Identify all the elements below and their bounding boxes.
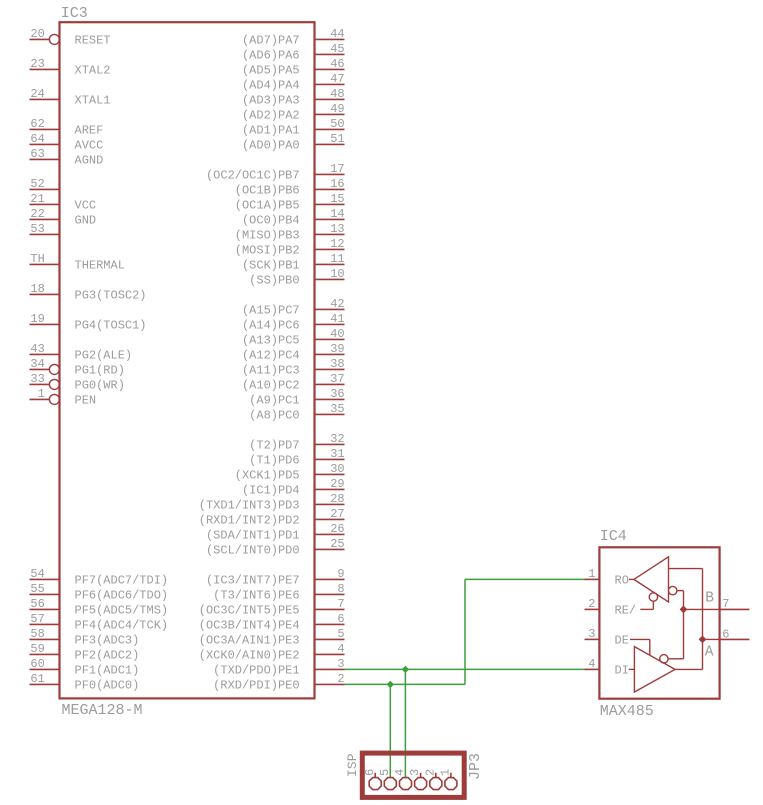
svg-text:PF6(ADC6/TDO): PF6(ADC6/TDO) bbox=[75, 589, 169, 603]
svg-text:(OC3A/AIN1)PE3: (OC3A/AIN1)PE3 bbox=[199, 634, 300, 648]
svg-text:58: 58 bbox=[30, 627, 44, 641]
svg-text:21: 21 bbox=[30, 192, 44, 206]
svg-text:12: 12 bbox=[330, 237, 344, 251]
svg-text:(T1)PD6: (T1)PD6 bbox=[249, 454, 299, 468]
svg-text:33: 33 bbox=[30, 372, 44, 386]
IC3 pin 34 PG1(RD) bbox=[30, 357, 125, 378]
svg-text:41: 41 bbox=[330, 312, 344, 326]
IC3 pin 48 (AD3)PA3 bbox=[242, 87, 345, 108]
IC3 pin 9 (IC3/INT7)PE7 bbox=[206, 567, 345, 588]
svg-text:2: 2 bbox=[337, 672, 344, 686]
svg-text:42: 42 bbox=[330, 297, 344, 311]
svg-text:(T3/INT6)PE6: (T3/INT6)PE6 bbox=[213, 589, 299, 603]
svg-text:(A15)PC7: (A15)PC7 bbox=[242, 304, 300, 318]
wire RXD vertical riser bbox=[464, 579, 466, 684]
svg-text:(AD4)PA4: (AD4)PA4 bbox=[242, 79, 300, 93]
svg-text:24: 24 bbox=[30, 87, 44, 101]
IC3 designator label bbox=[61, 5, 88, 22]
svg-text:15: 15 bbox=[330, 192, 344, 206]
svg-text:RESET: RESET bbox=[75, 34, 111, 48]
svg-text:17: 17 bbox=[330, 162, 344, 176]
svg-text:(AD5)PA5: (AD5)PA5 bbox=[242, 64, 300, 78]
svg-text:38: 38 bbox=[330, 357, 344, 371]
IC3 pin 32 (T2)PD7 bbox=[249, 432, 344, 453]
IC3 pin 6 (OC3B/INT4)PE4 bbox=[199, 612, 345, 633]
JP3 pin 6 pad bbox=[363, 769, 381, 790]
svg-text:60: 60 bbox=[30, 657, 44, 671]
IC3 pin 41 (A14)PC6 bbox=[242, 312, 345, 333]
IC3 pin 11 (SCK)PB1 bbox=[242, 252, 345, 273]
IC3 pin 20 RESET bbox=[30, 27, 111, 48]
wire TXD down to ISP pin 4 bbox=[404, 669, 406, 777]
svg-text:(OC1B)PB6: (OC1B)PB6 bbox=[235, 184, 300, 198]
svg-text:59: 59 bbox=[30, 642, 44, 656]
svg-text:6: 6 bbox=[722, 628, 729, 642]
svg-text:63: 63 bbox=[30, 147, 44, 161]
svg-text:9: 9 bbox=[337, 567, 344, 581]
IC3 pin 3 (TXD/PDO)PE1 bbox=[213, 657, 344, 678]
svg-text:(TXD1/INT3)PD3: (TXD1/INT3)PD3 bbox=[199, 499, 300, 513]
IC4 driver output line bbox=[675, 668, 702, 670]
svg-text:64: 64 bbox=[30, 132, 44, 146]
svg-text:2: 2 bbox=[588, 597, 595, 611]
svg-text:(A11)PC3: (A11)PC3 bbox=[242, 364, 300, 378]
IC3 pin 28 (TXD1/INT3)PD3 bbox=[199, 492, 345, 513]
svg-text:3: 3 bbox=[408, 769, 422, 776]
svg-text:27: 27 bbox=[330, 507, 344, 521]
IC4 net label A bbox=[705, 644, 714, 660]
svg-text:PF3(ADC3): PF3(ADC3) bbox=[75, 634, 140, 648]
IC3 pin 13 (MISO)PB3 bbox=[235, 222, 345, 243]
IC3 pin 12 (MOSI)PB2 bbox=[235, 237, 345, 258]
svg-text:(A10)PC2: (A10)PC2 bbox=[242, 379, 300, 393]
svg-text:4: 4 bbox=[393, 769, 407, 776]
svg-text:3: 3 bbox=[337, 657, 344, 671]
IC3 pin 2 (RXD/PDI)PE0 bbox=[213, 672, 344, 693]
IC3 pin 39 (A12)PC4 bbox=[242, 342, 345, 363]
IC3 pin 42 (A15)PC7 bbox=[242, 297, 345, 318]
svg-text:B: B bbox=[705, 591, 714, 607]
IC4 driver bubble link line bbox=[668, 658, 683, 660]
svg-text:(A12)PC4: (A12)PC4 bbox=[242, 349, 300, 363]
IC3 pin 36 (A9)PC1 bbox=[249, 387, 344, 408]
svg-text:DE: DE bbox=[615, 634, 629, 648]
IC3 pin 44 (AD7)PA7 bbox=[242, 27, 345, 48]
svg-text:(MISO)PB3: (MISO)PB3 bbox=[235, 229, 300, 243]
IC4 junction on B line bbox=[680, 606, 688, 614]
svg-text:PG0(WR): PG0(WR) bbox=[75, 379, 125, 393]
svg-text:(SCK)PB1: (SCK)PB1 bbox=[242, 259, 300, 273]
IC3 pin 1 PEN bbox=[30, 387, 97, 408]
svg-text:(RXD1/INT2)PD2: (RXD1/INT2)PD2 bbox=[199, 514, 300, 528]
IC4 RE/ enable bubble bbox=[649, 593, 657, 601]
IC4 pin 3 DE bbox=[585, 627, 629, 648]
IC3 pin 35 (A8)PC0 bbox=[249, 402, 344, 423]
junction on RXD wire bbox=[387, 681, 394, 688]
svg-text:PG2(ALE): PG2(ALE) bbox=[75, 349, 133, 363]
svg-text:PF4(ADC4/TCK): PF4(ADC4/TCK) bbox=[75, 619, 169, 633]
svg-text:(OC3C/INT5)PE5: (OC3C/INT5)PE5 bbox=[199, 604, 300, 618]
wire PE1 TXD to IC4 DI bbox=[345, 668, 585, 670]
svg-text:1: 1 bbox=[38, 387, 45, 401]
svg-text:14: 14 bbox=[330, 207, 344, 221]
svg-text:(T2)PD7: (T2)PD7 bbox=[249, 439, 299, 453]
IC4 driver inverting output bubble bbox=[660, 655, 668, 663]
IC3 pin 63 AGND bbox=[30, 147, 104, 168]
IC3 pin 57 PF4(ADC4/TCK) bbox=[30, 612, 169, 633]
svg-text:32: 32 bbox=[330, 432, 344, 446]
IC3 pin 14 (OC0)PB4 bbox=[242, 207, 345, 228]
svg-text:(OC0)PB4: (OC0)PB4 bbox=[242, 214, 300, 228]
svg-text:PG4(TOSC1): PG4(TOSC1) bbox=[75, 319, 147, 333]
wire PE0 RXD horizontal bbox=[345, 683, 466, 685]
IC3 pin 4 (XCK0/AIN0)PE2 bbox=[199, 642, 345, 663]
svg-text:52: 52 bbox=[30, 177, 44, 191]
IC3 pin 45 (AD6)PA6 bbox=[242, 42, 345, 63]
IC3 pin 24 XTAL1 bbox=[30, 87, 111, 108]
svg-text:(AD1)PA1: (AD1)PA1 bbox=[242, 124, 300, 138]
IC3 pin 62 AREF bbox=[30, 117, 104, 138]
svg-text:53: 53 bbox=[30, 222, 44, 236]
svg-text:(AD7)PA7: (AD7)PA7 bbox=[242, 34, 300, 48]
svg-text:45: 45 bbox=[330, 42, 344, 56]
IC4 pin 2 RE/ bbox=[585, 597, 637, 618]
svg-text:RE/: RE/ bbox=[615, 604, 637, 618]
svg-text:(RXD/PDI)PE0: (RXD/PDI)PE0 bbox=[213, 679, 299, 693]
IC3 pin 37 (A10)PC2 bbox=[242, 372, 345, 393]
IC3 pin 51 (AD0)PA0 bbox=[242, 132, 345, 153]
junction on TXD wire bbox=[402, 666, 409, 673]
JP3 designator label bbox=[467, 753, 484, 780]
IC4 DE link line bbox=[630, 639, 650, 655]
IC3 pin 8 (T3/INT6)PE6 bbox=[213, 582, 344, 603]
svg-text:5: 5 bbox=[378, 769, 392, 776]
svg-text:(XCK1)PD5: (XCK1)PD5 bbox=[235, 469, 300, 483]
IC4 bubble link line bbox=[677, 590, 684, 592]
IC3 pin 22 GND bbox=[30, 207, 97, 228]
IC3 pin 25 (SCL/INT0)PD0 bbox=[206, 537, 345, 558]
IC3 pin 26 (SDA/INT1)PD1 bbox=[206, 522, 345, 543]
svg-text:(A9)PC1: (A9)PC1 bbox=[249, 394, 299, 408]
svg-text:6: 6 bbox=[363, 769, 377, 776]
svg-text:(OC2/OC1C)PB7: (OC2/OC1C)PB7 bbox=[206, 169, 300, 183]
IC4 B line to pin 7 bbox=[684, 608, 720, 610]
IC3 pin 60 PF1(ADC1) bbox=[30, 657, 140, 678]
svg-text:3: 3 bbox=[588, 627, 595, 641]
svg-text:(A8)PC0: (A8)PC0 bbox=[249, 409, 299, 423]
IC3 pin 53 bbox=[30, 222, 60, 236]
IC4 receiver output link to RO bbox=[629, 578, 634, 580]
svg-text:40: 40 bbox=[330, 327, 344, 341]
IC3 pin 43 PG2(ALE) bbox=[30, 342, 133, 363]
svg-text:THERMAL: THERMAL bbox=[75, 259, 125, 273]
IC3 pin 27 (RXD1/INT2)PD2 bbox=[199, 507, 345, 528]
IC4 pin 4 DI bbox=[585, 657, 629, 678]
IC3 pin 55 PF6(ADC6/TDO) bbox=[30, 582, 169, 603]
svg-text:(SDA/INT1)PD1: (SDA/INT1)PD1 bbox=[206, 529, 300, 543]
IC3 pin TH THERMAL bbox=[30, 252, 125, 273]
svg-text:AREF: AREF bbox=[75, 124, 104, 138]
IC4 A line to pin 6 bbox=[703, 638, 720, 640]
IC3 pin 5 (OC3A/AIN1)PE3 bbox=[199, 627, 345, 648]
svg-text:RO: RO bbox=[615, 574, 629, 588]
JP3 pin 2 pad bbox=[423, 769, 441, 790]
IC3 pin 30 (XCK1)PD5 bbox=[235, 462, 345, 483]
svg-text:PEN: PEN bbox=[75, 394, 97, 408]
IC3 pin 61 PF0(ADC0) bbox=[30, 672, 140, 693]
svg-text:A: A bbox=[705, 644, 714, 660]
svg-text:11: 11 bbox=[330, 252, 344, 266]
svg-text:(AD3)PA3: (AD3)PA3 bbox=[242, 94, 300, 108]
IC4 receiver input line from A bbox=[669, 568, 703, 570]
IC3 pin 19 PG4(TOSC1) bbox=[30, 312, 147, 333]
IC4 internal vertical A bus bbox=[702, 569, 704, 670]
svg-text:PF1(ADC1): PF1(ADC1) bbox=[75, 664, 140, 678]
svg-text:AVCC: AVCC bbox=[75, 139, 104, 153]
IC4 designator label bbox=[600, 528, 627, 545]
svg-text:30: 30 bbox=[330, 462, 344, 476]
svg-text:PF2(ADC2): PF2(ADC2) bbox=[75, 649, 140, 663]
IC4 receiver buffer triangle bbox=[634, 557, 669, 602]
IC3 pin 46 (AD5)PA5 bbox=[242, 57, 345, 78]
svg-text:AGND: AGND bbox=[75, 154, 104, 168]
svg-text:56: 56 bbox=[30, 597, 44, 611]
svg-text:44: 44 bbox=[330, 27, 344, 41]
svg-text:29: 29 bbox=[330, 477, 344, 491]
svg-text:48: 48 bbox=[330, 87, 344, 101]
IC4 DI link line bbox=[629, 668, 635, 670]
svg-text:ISP: ISP bbox=[345, 753, 360, 777]
IC4 receiver inverting input bubble bbox=[669, 586, 677, 594]
wire riser to IC4 RO bbox=[465, 578, 585, 580]
JP3 pin 4 pad bbox=[393, 769, 411, 790]
svg-text:22: 22 bbox=[30, 207, 44, 221]
svg-text:XTAL2: XTAL2 bbox=[75, 64, 111, 78]
IC3 MEGA128 body outline bbox=[60, 22, 315, 698]
svg-text:25: 25 bbox=[330, 537, 344, 551]
IC3 pin 58 PF3(ADC3) bbox=[30, 627, 140, 648]
svg-text:(SCL/INT0)PD0: (SCL/INT0)PD0 bbox=[206, 544, 300, 558]
IC4 value MAX485 bbox=[600, 703, 654, 720]
svg-text:36: 36 bbox=[330, 387, 344, 401]
svg-text:47: 47 bbox=[330, 72, 344, 86]
svg-text:VCC: VCC bbox=[75, 199, 97, 213]
IC4 net label B bbox=[705, 591, 714, 607]
svg-text:37: 37 bbox=[330, 372, 344, 386]
svg-text:61: 61 bbox=[30, 672, 44, 686]
svg-text:34: 34 bbox=[30, 357, 44, 371]
svg-text:4: 4 bbox=[337, 642, 344, 656]
IC3 pin 47 (AD4)PA4 bbox=[242, 72, 345, 93]
svg-text:31: 31 bbox=[330, 447, 344, 461]
svg-text:(OC1A)PB5: (OC1A)PB5 bbox=[235, 199, 300, 213]
IC4 pin 1 RO bbox=[585, 567, 629, 588]
svg-text:43: 43 bbox=[30, 342, 44, 356]
IC4 MAX485 body outline bbox=[599, 547, 719, 698]
IC3 pin 31 (T1)PD6 bbox=[249, 447, 344, 468]
svg-text:7: 7 bbox=[337, 597, 344, 611]
IC3 pin 10 (SS)PB0 bbox=[249, 267, 344, 288]
IC3 pin 64 AVCC bbox=[30, 132, 104, 153]
svg-text:28: 28 bbox=[330, 492, 344, 506]
svg-text:4: 4 bbox=[588, 657, 595, 671]
svg-text:10: 10 bbox=[330, 267, 344, 281]
IC3 pin 21 VCC bbox=[30, 192, 97, 213]
svg-text:26: 26 bbox=[330, 522, 344, 536]
svg-text:54: 54 bbox=[30, 567, 44, 581]
IC3 pin 50 (AD1)PA1 bbox=[242, 117, 345, 138]
IC4 RE/ link line bbox=[640, 601, 653, 609]
svg-text:62: 62 bbox=[30, 117, 44, 131]
IC4 pin 7 B stub bbox=[720, 597, 750, 611]
svg-text:PG3(TOSC2): PG3(TOSC2) bbox=[75, 289, 147, 303]
IC3 pin 40 (A13)PC5 bbox=[242, 327, 345, 348]
svg-text:39: 39 bbox=[330, 342, 344, 356]
svg-text:JP3: JP3 bbox=[467, 753, 484, 780]
svg-text:IC4: IC4 bbox=[600, 528, 627, 545]
JP3 ISP connector outline bbox=[362, 753, 464, 797]
svg-text:(TXD/PDO)PE1: (TXD/PDO)PE1 bbox=[213, 664, 299, 678]
IC3 pin 17 (OC2/OC1C)PB7 bbox=[206, 162, 345, 183]
svg-text:5: 5 bbox=[337, 627, 344, 641]
svg-text:50: 50 bbox=[330, 117, 344, 131]
svg-text:16: 16 bbox=[330, 177, 344, 191]
JP3 value ISP bbox=[345, 753, 360, 777]
svg-text:DI: DI bbox=[615, 664, 629, 678]
svg-text:46: 46 bbox=[330, 57, 344, 71]
JP3 pin 3 pad bbox=[408, 769, 426, 790]
svg-text:(A13)PC5: (A13)PC5 bbox=[242, 334, 300, 348]
IC3 pin 38 (A11)PC3 bbox=[242, 357, 345, 378]
svg-text:57: 57 bbox=[30, 612, 44, 626]
svg-text:1: 1 bbox=[588, 567, 595, 581]
IC4 junction on A line bbox=[699, 636, 707, 644]
svg-text:49: 49 bbox=[330, 102, 344, 116]
svg-text:IC3: IC3 bbox=[61, 5, 88, 22]
IC3 pin 18 PG3(TOSC2) bbox=[30, 282, 147, 303]
IC3 pin 52 bbox=[30, 177, 60, 191]
svg-text:(OC3B/INT4)PE4: (OC3B/INT4)PE4 bbox=[199, 619, 300, 633]
IC3 pin 56 PF5(ADC5/TMS) bbox=[30, 597, 169, 618]
svg-text:23: 23 bbox=[30, 57, 44, 71]
svg-text:(XCK0/AIN0)PE2: (XCK0/AIN0)PE2 bbox=[199, 649, 300, 663]
svg-text:PF0(ADC0): PF0(ADC0) bbox=[75, 679, 140, 693]
IC3 pin 16 (OC1B)PB6 bbox=[235, 177, 345, 198]
svg-text:35: 35 bbox=[330, 402, 344, 416]
svg-text:7: 7 bbox=[722, 597, 729, 611]
svg-text:PF5(ADC5/TMS): PF5(ADC5/TMS) bbox=[75, 604, 169, 618]
svg-text:(IC3/INT7)PE7: (IC3/INT7)PE7 bbox=[206, 574, 300, 588]
svg-text:55: 55 bbox=[30, 582, 44, 596]
svg-text:(IC1)PD4: (IC1)PD4 bbox=[242, 484, 300, 498]
svg-text:20: 20 bbox=[30, 27, 44, 41]
svg-text:(A14)PC6: (A14)PC6 bbox=[242, 319, 300, 333]
IC4 driver buffer triangle bbox=[634, 647, 675, 692]
IC3 pin 15 (OC1A)PB5 bbox=[235, 192, 345, 213]
svg-text:TH: TH bbox=[30, 252, 44, 266]
svg-text:18: 18 bbox=[30, 282, 44, 296]
svg-text:51: 51 bbox=[330, 132, 344, 146]
svg-text:(SS)PB0: (SS)PB0 bbox=[249, 274, 299, 288]
svg-text:PF7(ADC7/TDI): PF7(ADC7/TDI) bbox=[75, 574, 169, 588]
svg-text:1: 1 bbox=[439, 769, 453, 776]
IC3 pin 33 PG0(WR) bbox=[30, 372, 125, 393]
svg-text:(AD6)PA6: (AD6)PA6 bbox=[242, 49, 300, 63]
svg-text:XTAL1: XTAL1 bbox=[75, 94, 111, 108]
svg-text:MAX485: MAX485 bbox=[600, 703, 654, 720]
svg-text:GND: GND bbox=[75, 214, 97, 228]
svg-text:19: 19 bbox=[30, 312, 44, 326]
svg-text:8: 8 bbox=[337, 582, 344, 596]
svg-text:MEGA128-M: MEGA128-M bbox=[62, 702, 143, 719]
IC3 value MEGA128-M bbox=[62, 702, 143, 719]
IC4 internal vertical B bus bbox=[683, 591, 685, 659]
svg-text:2: 2 bbox=[423, 769, 437, 776]
JP3 pin 5 pad bbox=[378, 769, 396, 790]
svg-text:(AD2)PA2: (AD2)PA2 bbox=[242, 109, 300, 123]
svg-text:6: 6 bbox=[337, 612, 344, 626]
IC3 pin 7 (OC3C/INT5)PE5 bbox=[199, 597, 345, 618]
IC3 pin 23 XTAL2 bbox=[30, 57, 111, 78]
JP3 pin 1 pad bbox=[439, 769, 457, 790]
wire RXD down to ISP pin 5 bbox=[389, 684, 391, 777]
IC3 pin 59 PF2(ADC2) bbox=[30, 642, 140, 663]
svg-text:13: 13 bbox=[330, 222, 344, 236]
IC3 pin 29 (IC1)PD4 bbox=[242, 477, 345, 498]
IC4 pin 6 A stub bbox=[720, 628, 750, 642]
svg-text:(MOSI)PB2: (MOSI)PB2 bbox=[235, 244, 300, 258]
svg-text:PG1(RD): PG1(RD) bbox=[75, 364, 125, 378]
IC3 pin 54 PF7(ADC7/TDI) bbox=[30, 567, 169, 588]
IC3 pin 49 (AD2)PA2 bbox=[242, 102, 345, 123]
svg-text:(AD0)PA0: (AD0)PA0 bbox=[242, 139, 300, 153]
